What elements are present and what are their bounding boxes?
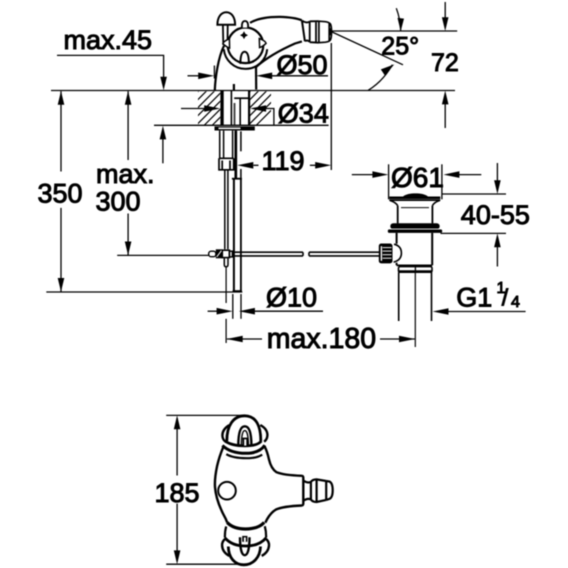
clamp tab (229, 251, 232, 257)
drain vertical rod (232, 178, 242, 180)
dim O10 (208, 310, 219, 312)
rod stub below clamp (224, 258, 228, 267)
dim max.180 (227, 338, 415, 340)
top right leaf (260, 425, 267, 442)
dim 119 (254, 164, 259, 166)
handle bottom loop (240, 52, 249, 64)
handle top notch (242, 21, 248, 28)
lift knob mushroom (217, 12, 235, 25)
tube right line lower (240, 169, 242, 179)
lift knob stem (223, 25, 228, 45)
tube right line upper (240, 131, 242, 151)
shank below flange (220, 131, 233, 159)
clamp screw (209, 251, 216, 257)
svg-text:Ø10: Ø10 (266, 282, 317, 312)
lift rod below nut (225, 170, 228, 249)
plan aerator waist (303, 481, 311, 501)
faucet body left edge (215, 46, 224, 90)
body outline left (215, 447, 227, 522)
handle right ear (259, 39, 266, 48)
svg-text:max.: max. (96, 159, 155, 189)
hole tube right line (239, 99, 241, 126)
handle skirt double arc (224, 49, 267, 69)
aerator outlet dot (329, 28, 331, 35)
thin line below stub (225, 267, 227, 303)
top band2 wide (222, 445, 264, 453)
svg-text:max.180: max.180 (267, 323, 376, 355)
aerator body (310, 21, 319, 43)
thick tube line (234, 131, 237, 178)
svg-text:max.45: max.45 (64, 25, 153, 55)
hatch right block (216, 90, 292, 126)
body bottom edge (397, 264, 433, 266)
25 deg arc (396, 8, 400, 31)
dim 40-55 (442, 193, 506, 195)
top inner arch (238, 426, 251, 445)
hole left black bar (220, 91, 223, 126)
handle circle (228, 28, 264, 64)
svg-text:300: 300 (96, 186, 141, 216)
25 deg angled line (331, 32, 403, 65)
svg-text:G1: G1 (456, 283, 492, 313)
clamp block light (222, 250, 229, 257)
bottom collar sides (225, 526, 266, 537)
top neck ring (226, 454, 262, 458)
dim 72 (444, 2, 446, 128)
svg-text:185: 185 (155, 478, 200, 508)
flange top dark line with dome (389, 193, 440, 199)
hatch left block (164, 90, 248, 126)
clamp block dark (216, 249, 223, 258)
top handle dome (227, 416, 261, 441)
deck bottom line (154, 124, 329, 126)
svg-text:25°: 25° (381, 32, 419, 60)
neck inner line (401, 207, 429, 209)
top band1 (226, 441, 262, 446)
drain body walls (397, 233, 433, 265)
svg-text:119: 119 (262, 146, 305, 176)
tailpipe (399, 272, 432, 321)
spout end slant (302, 20, 305, 41)
svg-text:4: 4 (511, 294, 520, 311)
dim 350 (60, 91, 62, 291)
flange below deck (215, 126, 255, 130)
dim 185 (166, 414, 244, 416)
plan aerator body (311, 479, 326, 502)
svg-text:72: 72 (431, 49, 459, 77)
rim band under body (399, 267, 433, 273)
hole tube left grey (234, 103, 236, 126)
dim max.300 (127, 91, 129, 255)
aerator waist bottom (305, 40, 310, 41)
plan aerator cap (326, 481, 333, 500)
seal band B (388, 229, 442, 233)
spout top edge (250, 17, 302, 23)
side circle (218, 482, 236, 500)
svg-text:Ø50: Ø50 (277, 50, 328, 80)
svg-text:/: / (502, 285, 509, 311)
bottom inner arch (240, 537, 250, 555)
neck walls (398, 206, 433, 224)
bottom band-b (225, 538, 266, 546)
svg-text:Ø61: Ø61 (391, 162, 444, 193)
faucet body right edge (255, 67, 257, 90)
bulge hub right of knob (394, 244, 402, 262)
knurled knob (379, 244, 393, 264)
nut (219, 158, 234, 170)
spout end (302, 476, 303, 506)
spout underside (256, 41, 302, 67)
bottom right leaf (262, 539, 269, 556)
svg-text:40-55: 40-55 (461, 200, 530, 230)
horizontal rod left segment (232, 252, 303, 256)
dim max.45 (57, 55, 164, 87)
dim G1 1/4 (433, 308, 449, 315)
horizontal rod right segment (309, 252, 380, 256)
hole shank right line (230, 91, 232, 126)
bottom band-a wide (227, 522, 264, 529)
centre stub above deck (233, 84, 235, 90)
svg-text:Ø34: Ø34 (278, 99, 329, 129)
dim O34 (181, 108, 205, 110)
handle centre diamond (240, 31, 248, 39)
extension line aerator tip (330, 43, 332, 170)
flange bottom line (389, 199, 440, 201)
body outline right to spout (265, 446, 303, 476)
bottom dome (228, 547, 260, 565)
hole right wall bar (248, 91, 250, 126)
svg-text:350: 350 (38, 179, 83, 209)
top left leaf (222, 425, 229, 442)
handle left ear (223, 39, 230, 48)
aerator waist top (302, 21, 310, 23)
25 deg horizontal line (331, 30, 457, 32)
flange to neck curves (390, 201, 398, 206)
hole step line (234, 97, 248, 99)
seal band A (390, 223, 439, 229)
aerator cap (319, 21, 332, 43)
dim O61 (388, 164, 390, 199)
deck surface line (51, 90, 455, 92)
bottom left leaf (222, 539, 229, 556)
dim O50 (213, 66, 215, 79)
